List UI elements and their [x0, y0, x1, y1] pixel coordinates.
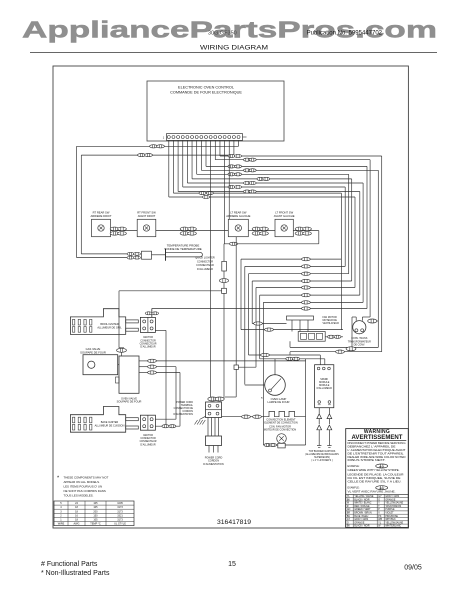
svg-text:GY: GY: [347, 519, 351, 521]
svg-text:4: 4: [60, 506, 62, 509]
svg-text:105: 105: [93, 519, 98, 522]
svg-text:AppliancePartsPros.com: AppliancePartsPros.com: [22, 17, 437, 43]
svg-text:316417819: 316417819: [217, 519, 251, 526]
svg-text:MINUS STRIPE NEXT.: MINUS STRIPE NEXT.: [348, 459, 387, 462]
svg-text:3173: 3173: [117, 506, 123, 509]
svg-text:GY: GY: [378, 496, 382, 498]
svg-text:AWG: AWG: [74, 523, 80, 526]
svg-text:WIRE: WIRE: [58, 523, 65, 526]
svg-text:GREEN WIRE WITH YELLOW STR: GREEN WIRE WITH YELLOW STRIPE.: [348, 469, 400, 472]
svg-text:VIOLET: VIOLET: [385, 513, 394, 515]
svg-text:GN: GN: [347, 509, 351, 511]
svg-text:30G GF350: 30G GF350: [208, 31, 237, 37]
svg-text:OVEN LAMP: OVEN LAMP: [271, 397, 287, 401]
svg-text:18: 18: [75, 506, 78, 509]
svg-text:VENTILATEUR: VENTILATEUR: [323, 322, 340, 325]
svg-text:WHITE / BLANC: WHITE / BLANC: [354, 502, 371, 505]
svg-text:GRAY / GRIS: GRAY / GRIS: [354, 518, 368, 521]
svg-text:MOTEUR DE CONVECTION: MOTEUR DE CONVECTION: [264, 428, 297, 431]
svg-text:1005: 1005: [117, 502, 123, 505]
svg-text:*: *: [57, 476, 60, 482]
svg-text:BU: BU: [347, 516, 351, 518]
svg-text:APPEAR ON ALL MODELS.: APPEAR ON ALL MODELS.: [64, 480, 101, 484]
svg-text:# Functional Parts: # Functional Parts: [41, 561, 98, 568]
svg-text:TAN/CHAMOIS: TAN/CHAMOIS: [385, 505, 401, 508]
svg-text:CELLE DE RAYURE S'IL Y A: CELLE DE RAYURE S'IL Y A LIEU.: [348, 480, 402, 483]
svg-text:15: 15: [228, 561, 236, 568]
svg-text:Publication No. 5995447702: Publication No. 5995447702: [307, 31, 383, 37]
svg-text:TEMP °C: TEMP °C: [90, 523, 101, 526]
svg-text:RED / ROUGE: RED / ROUGE: [354, 506, 370, 508]
svg-text:WHITE/BLANC: WHITE/BLANC: [385, 525, 401, 528]
svg-text:D'ALLUMEUR: D'ALLUMEUR: [140, 443, 155, 446]
svg-text:QUICK LIGHTER: QUICK LIGHTER: [195, 257, 215, 260]
svg-text:D'ALLUMEUR: D'ALLUMEUR: [197, 268, 213, 271]
svg-text:D'ALIMENTATION: D'ALIMENTATION: [203, 463, 224, 466]
svg-text:*: *: [261, 396, 263, 401]
svg-text:EXAMPLE:: EXAMPLE:: [348, 465, 360, 468]
svg-text:D'ALLUMEUR: D'ALLUMEUR: [140, 346, 155, 349]
svg-text:WB: WB: [378, 519, 382, 521]
svg-text:200: 200: [93, 510, 98, 513]
svg-text:( L 4 Y LR B RED'S ): ( L 4 Y LR B RED'S ): [311, 460, 332, 462]
svg-text:ALLUMEUR DE GRIL: ALLUMEUR DE GRIL: [97, 327, 122, 330]
svg-text:150: 150: [93, 514, 98, 517]
svg-text:ORANGE: ORANGE: [354, 521, 364, 524]
svg-text:DE CONV.: DE CONV.: [354, 343, 366, 346]
svg-text:LAMPE DE FOUR: LAMPE DE FOUR: [268, 400, 290, 404]
svg-text:YELLOW/JAUNE: YELLOW/JAUNE: [385, 502, 403, 505]
svg-text:WHT/BLK: WHT/BLK: [385, 519, 396, 521]
svg-text:PINK/ROSE: PINK/ROSE: [385, 516, 398, 518]
svg-text:ELEMENT DE CONVECTION: ELEMENT DE CONVECTION: [264, 422, 297, 425]
svg-text:ARRIERE GAUCHE: ARRIERE GAUCHE: [226, 214, 250, 218]
svg-text:D'ALLUMEUR: D'ALLUMEUR: [317, 387, 332, 390]
svg-text:GREEN / VERT: GREEN / VERT: [354, 509, 371, 511]
svg-text:BLUE / BLEU: BLUE / BLEU: [354, 516, 368, 518]
svg-text:CONNECTOR: CONNECTOR: [197, 260, 213, 263]
svg-text:09/05: 09/05: [404, 565, 422, 572]
svg-text:3173: 3173: [117, 519, 123, 522]
svg-text:PURPLE: PURPLE: [385, 509, 395, 511]
svg-text:EXAMPLE:: EXAMPLE:: [348, 487, 360, 490]
svg-text:AVANT GAUCHE: AVANT GAUCHE: [274, 214, 295, 218]
svg-text:BK: BK: [347, 526, 351, 528]
svg-text:YELLOW / JAUNE: YELLOW / JAUNE: [354, 495, 373, 498]
svg-text:18: 18: [75, 519, 78, 522]
svg-text:SOUPAPE DE FOUR: SOUPAPE DE FOUR: [80, 350, 106, 354]
svg-text:105: 105: [93, 506, 98, 509]
svg-text:24: 24: [75, 502, 78, 505]
svg-text:NE SONT PAS COMPRIS DANS: NE SONT PAS COMPRIS DANS: [64, 489, 106, 493]
svg-text:BROWN / BRUN: BROWN / BRUN: [354, 513, 372, 515]
svg-text:3: 3: [60, 510, 62, 513]
svg-text:105: 105: [93, 502, 98, 505]
svg-text:O: O: [378, 499, 380, 501]
svg-text:D'ALIMENTATION: D'ALIMENTATION: [174, 413, 194, 416]
svg-text:1: 1: [163, 136, 165, 140]
svg-text:BR: BR: [347, 513, 351, 515]
svg-text:PK: PK: [378, 516, 382, 518]
svg-text:BLACK / NOIR: BLACK / NOIR: [354, 498, 370, 501]
svg-text:TOP BURNER IGNITORS: TOP BURNER IGNITORS: [309, 451, 336, 453]
svg-text:SOUPAPE DE FOUR: SOUPAPE DE FOUR: [117, 400, 142, 404]
svg-text:WIRING DIAGRAM: WIRING DIAGRAM: [200, 45, 268, 52]
svg-text:TOUS LES MODELES.: TOUS LES MODELES.: [64, 493, 94, 497]
svg-text:COMMANDE DE FOUR ELECTRONIQUE: COMMANDE DE FOUR ELECTRONIQUE: [170, 91, 242, 95]
svg-text:UL STYLE: UL STYLE: [114, 523, 126, 526]
svg-text:LES ITEMS POURVUS D' UN: LES ITEMS POURVUS D' UN: [64, 485, 103, 489]
svg-text:3321: 3321: [117, 514, 123, 517]
svg-text:BK: BK: [347, 499, 351, 501]
svg-text:BK-Y: BK-Y: [379, 466, 385, 468]
svg-text:16: 16: [75, 514, 78, 517]
svg-text:* Non-Illustrated Parts: * Non-Illustrated Parts: [41, 570, 110, 577]
svg-text:SUPERIEURS): SUPERIEURS): [314, 457, 330, 459]
svg-text:SONDE DE TEMPERATURE: SONDE DE TEMPERATURE: [164, 247, 202, 251]
svg-text:2: 2: [60, 514, 62, 517]
svg-text:ORANGE: ORANGE: [385, 498, 395, 501]
svg-text:YELLOW/JAUNE: YELLOW/JAUNE: [385, 521, 403, 524]
svg-text:(ALLUMEURS DE BROULEURS: (ALLUMEURS DE BROULEURS: [305, 453, 339, 456]
svg-text:18: 18: [75, 510, 78, 513]
svg-text:ALLUMEUR DE CUISSON: ALLUMEUR DE CUISSON: [95, 424, 125, 427]
svg-text:5: 5: [60, 502, 62, 505]
svg-text:3173: 3173: [117, 510, 123, 513]
svg-text:1: 1: [60, 519, 62, 522]
svg-text:GRAY / GRIS: GRAY / GRIS: [385, 495, 399, 498]
svg-text:BLACK / NOIR: BLACK / NOIR: [354, 525, 370, 528]
svg-text:THESE COMPONENTS MAY NOT: THESE COMPONENTS MAY NOT: [64, 476, 109, 480]
svg-text:CONNECTEUR: CONNECTEUR: [196, 264, 214, 267]
svg-text:ARRIERE DROIT: ARRIERE DROIT: [90, 214, 111, 218]
svg-text:ELECTRONIC OVEN CONTROL: ELECTRONIC OVEN CONTROL: [178, 86, 234, 90]
svg-text:AVANT DROIT: AVANT DROIT: [138, 214, 156, 218]
svg-text:O: O: [347, 522, 349, 524]
svg-text:VL VERT AVEC RAYURE JAUNE.: VL VERT AVEC RAYURE JAUNE.: [348, 491, 396, 494]
